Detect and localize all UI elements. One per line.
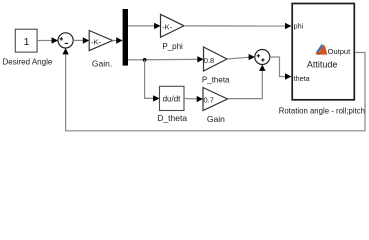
svg-text:1: 1	[24, 36, 30, 48]
demux	[123, 9, 128, 66]
wire Attitude Output feedback to Sum1	[62, 48, 365, 131]
wire Sum1 to Gain	[73, 37, 89, 43]
sum S1	[58, 33, 73, 48]
svg-text:Output: Output	[328, 47, 351, 56]
svg-text:-K-: -K-	[162, 23, 173, 32]
wire Gain to Demux	[113, 37, 123, 43]
svg-text:-K-: -K-	[91, 38, 102, 47]
svg-text:D_theta: D_theta	[157, 113, 187, 123]
gain P_theta 0.8	[204, 47, 228, 71]
svg-text:Rotation angle - roll;pitch: Rotation angle - roll;pitch	[279, 106, 365, 115]
wire Sum2 to Attitude theta	[270, 57, 292, 80]
derivative du/dt	[160, 86, 185, 110]
svg-text:P_theta: P_theta	[202, 75, 230, 84]
wire du/dt to Gain 0.7	[184, 96, 203, 102]
svg-text:Gain.: Gain.	[92, 58, 112, 68]
svg-text:du/dt: du/dt	[163, 95, 182, 104]
icon MATLAB logo	[316, 44, 328, 55]
wire P_phi to Attitude phi	[184, 23, 291, 29]
svg-text:Attitude: Attitude	[307, 60, 338, 70]
gain P_phi	[161, 14, 185, 37]
svg-text:Gain: Gain	[207, 114, 225, 124]
svg-text:P_phi: P_phi	[162, 42, 183, 51]
wire P_theta to Sum2	[227, 54, 255, 60]
wire Demux to P_phi	[128, 23, 161, 29]
constant block Const "1"	[15, 29, 37, 52]
sum S2	[255, 50, 270, 65]
wire junction to du/dt	[145, 60, 160, 102]
svg-text:Desired Angle: Desired Angle	[2, 58, 52, 67]
wire Const to Sum1	[37, 37, 58, 43]
gain Gain.	[89, 31, 112, 51]
svg-text:0.7: 0.7	[204, 95, 214, 104]
subsystem Attitude	[292, 4, 354, 100]
node junction theta	[143, 58, 147, 62]
svg-text:0.8: 0.8	[204, 56, 214, 65]
svg-text:theta: theta	[294, 74, 310, 83]
wire Demux to P_theta	[128, 56, 204, 62]
svg-text:phi: phi	[294, 21, 304, 30]
gain Gain 0.7	[203, 88, 228, 111]
wire Gain 0.7 to Sum2 bottom	[228, 65, 266, 99]
